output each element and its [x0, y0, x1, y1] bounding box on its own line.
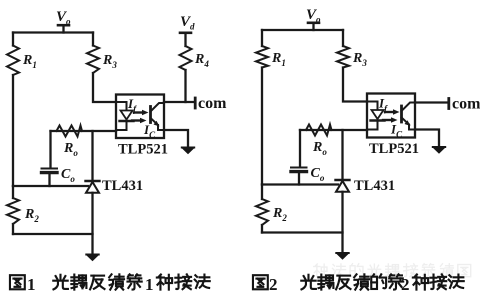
label 馈 (fig.2 caption)	[354, 274, 369, 289]
wire reference node rail (fig.2)	[262, 183, 338, 185]
node Vd (fig.1 aux supply terminal)	[180, 33, 191, 46]
caption figure 1	[10, 274, 210, 294]
wire R3 to LED anode (fig.1)	[93, 73, 116, 102]
wire R1 bottom to reference node (fig.2)	[261, 68, 263, 185]
wire R2 bottom to anode rail (fig.1)	[12, 224, 14, 234]
wire Ro left to Co (fig.2)	[299, 130, 301, 167]
label 接 (fig.2 caption)	[430, 274, 446, 289]
wire emitter to ground (fig.2)	[415, 130, 439, 147]
label 法 (fig.2 caption)	[449, 275, 464, 288]
resistor R3 (fig.2)	[337, 46, 349, 68]
optocoupler U2 TLP521 (fig.2)	[367, 94, 415, 138]
wire LED cathode / Ro / TL431 cathode net (fig.2)	[300, 129, 367, 131]
label 光 (fig.1 caption)	[53, 275, 68, 290]
watermark (faint gray)	[314, 264, 471, 277]
label 图 (fig.1 caption)	[10, 275, 25, 289]
wire TL431 cathode lead (fig.1)	[91, 131, 93, 181]
wire reference node rail (fig.1)	[13, 185, 88, 187]
svg-text:TLP521: TLP521	[369, 141, 419, 157]
label 反 (fig.2 caption)	[336, 276, 350, 290]
label 接 (fig.1 caption)	[175, 274, 191, 289]
caption figure 2	[253, 274, 464, 294]
label 图 (fig.2 caption)	[253, 275, 268, 289]
wire Vo rail to R1 (fig.2)	[261, 30, 263, 46]
node com terminal (fig.2)	[447, 99, 450, 109]
resistor R3 (fig.1)	[87, 46, 99, 74]
wire Vo rail to R3 (fig.1)	[92, 33, 94, 46]
label 种 (fig.1 caption)	[157, 275, 172, 290]
label 第 (fig.2 caption)	[389, 274, 403, 289]
wire top rail fig.1	[13, 31, 93, 33]
wire ref node to R2 (fig.2)	[261, 185, 263, 200]
label 法 (fig.1 caption)	[195, 275, 210, 288]
wire R1 bottom to reference node	[12, 75, 14, 186]
label 耦 (fig.2 caption)	[318, 275, 333, 290]
node com terminal (fig.1)	[194, 98, 197, 108]
ground (fig.2 TL431 anode)	[335, 252, 349, 260]
resistor R1 (fig.2)	[256, 46, 268, 68]
svg-text:com: com	[452, 96, 480, 113]
wire Vo rail to R1 (left rail upper)	[12, 33, 14, 46]
svg-text:TL431: TL431	[102, 178, 143, 194]
svg-text:1: 1	[145, 275, 154, 294]
wire bottom rail (fig.1)	[13, 233, 93, 235]
wire bottom rail (fig.2)	[262, 231, 343, 233]
wire Vo rail to R3 (fig.2)	[342, 30, 344, 46]
wire ref node to R2 (fig.1)	[12, 186, 14, 198]
label 馈 (fig.1 caption)	[109, 274, 124, 289]
wire collector to com (fig.1)	[164, 101, 194, 103]
svg-text:com: com	[198, 95, 227, 112]
shunt regulator TL431 (fig.1)	[86, 181, 100, 193]
label 第 (fig.1 caption)	[127, 274, 141, 289]
wire R2 bottom to anode rail (fig.2)	[261, 225, 263, 233]
resistor R4 (fig.1)	[180, 46, 192, 70]
optocoupler U1 TLP521 (fig.1)	[116, 95, 164, 139]
capacitor Co (fig.1)	[42, 169, 58, 173]
wire Co bottom to reference node (fig.1)	[48, 174, 50, 186]
label 反 (fig.1 caption)	[90, 276, 104, 290]
wire TL431 anode to ground (fig.2)	[341, 192, 343, 252]
wire LED cathode / Ro / TL431 cathode net (fig.1)	[51, 130, 117, 132]
capacitor Co (fig.2)	[291, 168, 307, 172]
ground (fig.2 emitter)	[432, 146, 446, 154]
wire R4 bottom to com line (fig.1)	[184, 70, 186, 102]
label 的 (fig.2 caption)	[371, 274, 386, 289]
svg-text:1: 1	[27, 275, 36, 294]
resistor Ro (fig.2)	[306, 125, 332, 136]
label 耦 (fig.1 caption)	[71, 275, 86, 290]
wire collector to com (fig.2)	[415, 101, 448, 103]
svg-text:2: 2	[401, 275, 410, 294]
wire Ro left to Co (fig.1)	[49, 131, 51, 168]
shunt regulator TL431 (fig.2)	[336, 180, 350, 192]
wire R3 to LED anode (fig.2)	[343, 68, 367, 102]
wire top rail fig.2	[262, 29, 343, 31]
wire TL431 anode to ground (fig.1)	[91, 193, 93, 254]
wire emitter to ground (fig.1)	[164, 130, 188, 147]
resistor R2 (fig.1)	[7, 198, 19, 224]
svg-text:TLP521: TLP521	[118, 142, 168, 158]
resistor Ro (fig.1)	[57, 126, 83, 137]
resistor R1 (fig.1)	[7, 46, 19, 76]
ground (fig.1 TL431 anode)	[85, 254, 99, 262]
label 种 (fig.2 caption)	[413, 275, 428, 290]
wire Co bottom to reference node (fig.2)	[298, 173, 300, 185]
node Vo (fig.1 output rail terminal)	[58, 25, 69, 32]
node Vo (fig.2 output rail terminal)	[308, 23, 319, 30]
ground (fig.1 emitter)	[181, 147, 195, 155]
resistor R2 (fig.2)	[256, 199, 268, 225]
svg-text:2: 2	[269, 275, 278, 294]
label 光 (fig.2 caption)	[301, 275, 316, 290]
svg-text:TL431: TL431	[354, 178, 395, 194]
wire TL431 cathode lead (fig.2)	[341, 130, 343, 180]
